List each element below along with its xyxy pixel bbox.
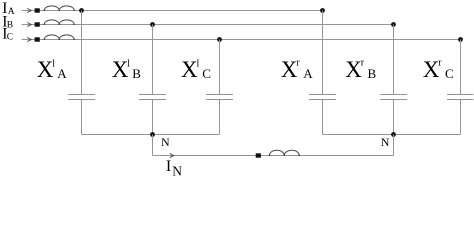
label X^r_A (281, 57, 314, 82)
svg-text:C: C (445, 66, 454, 81)
label X^l_A (37, 57, 68, 82)
arrow on line C (22, 39, 32, 41)
svg-text:l: l (127, 58, 130, 69)
label I_N (166, 158, 182, 179)
capacitor X^r_A plates (309, 95, 336, 100)
wire: branch rA vertical lower (322, 99, 324, 135)
svg-text:B: B (7, 21, 13, 31)
wire: branch rC vertical lower (460, 99, 462, 135)
svg-text:A: A (8, 7, 15, 17)
arrow on line A (22, 10, 32, 12)
inductor coil on line B (44, 20, 74, 25)
wire: phase line B (32, 24, 394, 26)
node: junction dot line C / branch rC (458, 37, 463, 42)
svg-text:C: C (7, 33, 13, 43)
wire: right N drop (393, 135, 395, 156)
wire: phase line C (32, 39, 461, 41)
svg-text:A: A (303, 66, 313, 81)
svg-text:I: I (166, 158, 171, 175)
svg-text:X: X (281, 57, 298, 82)
node N (left) dot (150, 132, 155, 137)
arrow on line B (22, 24, 32, 26)
capacitor X^l_B plates (139, 95, 166, 100)
wire: left N drop (152, 135, 154, 156)
arrowhead on neutral wire (170, 153, 175, 157)
node: junction dot line B / branch rB (391, 22, 396, 27)
terminal square on line C (35, 37, 40, 41)
wire: branch lC vertical lower (219, 99, 221, 135)
label X^r_C (423, 57, 454, 82)
svg-text:l: l (197, 58, 200, 69)
label I_C (2, 26, 13, 43)
svg-text:X: X (112, 57, 129, 82)
inductor coil on neutral wire (269, 150, 299, 155)
node N (right) dot (391, 132, 396, 137)
wire: branch lB vertical lower (152, 99, 154, 135)
svg-text:l: l (52, 58, 55, 69)
wire: neutral bottom wire (153, 155, 394, 157)
svg-text:B: B (132, 66, 141, 81)
svg-text:A: A (57, 66, 67, 81)
capacitor X^l_A plates (68, 95, 95, 100)
svg-text:C: C (202, 66, 211, 81)
wire: branch rB vertical upper (393, 25, 395, 95)
label X^l_B (112, 57, 142, 82)
inductor coil on line A (44, 6, 74, 11)
wire: branch rA vertical upper (322, 11, 324, 95)
wire: left bottom bus (82, 134, 220, 136)
svg-text:X: X (423, 57, 440, 82)
wire: right bottom bus (323, 134, 461, 136)
wire: branch lA vertical lower (81, 99, 83, 135)
svg-text:N: N (172, 164, 182, 177)
capacitor X^l_C plates (206, 95, 233, 100)
label I_B (2, 14, 13, 31)
node: junction dot line C / branch lC (217, 37, 222, 42)
node: junction dot line A / branch lA (79, 8, 84, 13)
svg-text:B: B (368, 66, 377, 81)
wire: phase line A (32, 10, 323, 12)
label X^r_B (345, 57, 376, 82)
wire: branch lA vertical upper (81, 11, 83, 95)
capacitor X^r_B plates (380, 95, 407, 100)
capacitor X^r_C plates (447, 95, 474, 100)
inductor coil on line C (44, 35, 74, 40)
wire: branch rC vertical upper (460, 40, 462, 95)
terminal square on line B (35, 22, 40, 26)
wire: branch rB vertical lower (393, 99, 395, 135)
node: junction dot line B / branch lB (150, 22, 155, 27)
svg-text:X: X (37, 57, 54, 82)
svg-text:N: N (381, 135, 390, 149)
label I_A (2, 0, 15, 17)
terminal square on line A (35, 8, 40, 12)
svg-text:X: X (181, 57, 198, 82)
wire: branch lC vertical upper (219, 40, 221, 95)
svg-text:N: N (161, 135, 170, 149)
terminal square on neutral wire (256, 153, 261, 157)
node: junction dot line A / branch rA (320, 8, 325, 13)
svg-text:X: X (345, 57, 362, 82)
label X^l_C (181, 57, 211, 82)
wire: branch lB vertical upper (152, 25, 154, 95)
